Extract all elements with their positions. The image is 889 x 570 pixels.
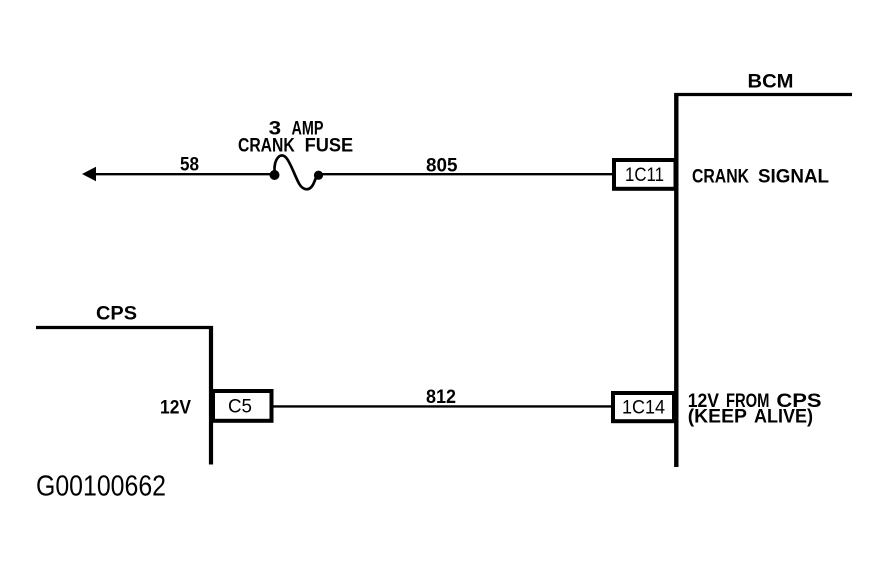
fuse F1 symbol (in-line fuse squiggle with terminal dots) xyxy=(270,155,324,189)
svg-text:CPS: CPS xyxy=(96,303,137,325)
svg-text:G00100662: G00100662 xyxy=(36,471,166,503)
fuse F1: 3 AMP CRANK FUSE value label xyxy=(238,118,353,157)
CPS module boundary (top edge) xyxy=(36,326,213,329)
wire 58 (crank signal wire left segment with arrowhead) xyxy=(82,167,271,182)
svg-text:BCM: BCM xyxy=(748,71,794,93)
pin function label 12V FROM CPS (KEEP ALIVE) xyxy=(688,390,822,428)
svg-text:812: 812 xyxy=(426,386,456,408)
CPS module boundary (right edge vertical line) xyxy=(209,326,213,465)
wire 812 (C5 to BCM 1C14 segment) xyxy=(272,405,613,407)
connector terminal 1C14 (BCM 12V keep alive pin) xyxy=(613,393,674,421)
connector terminal C5 (CPS keep-alive pin) xyxy=(213,391,272,421)
wire 805 (fuse to BCM connector segment) xyxy=(322,173,613,175)
BCM module boundary (left edge vertical line) xyxy=(674,93,678,467)
svg-text:805: 805 xyxy=(426,155,458,177)
svg-text:CRANKSIGNAL: CRANKSIGNAL xyxy=(692,166,829,188)
connector terminal 1C11 (BCM crank signal pin) xyxy=(614,160,676,189)
svg-text:1C11: 1C11 xyxy=(625,165,664,186)
BCM module boundary (top edge) xyxy=(675,93,853,96)
svg-text:C5: C5 xyxy=(228,397,252,418)
svg-text:58: 58 xyxy=(180,154,199,176)
svg-text:12V: 12V xyxy=(160,397,191,419)
svg-text:1C14: 1C14 xyxy=(622,398,665,419)
